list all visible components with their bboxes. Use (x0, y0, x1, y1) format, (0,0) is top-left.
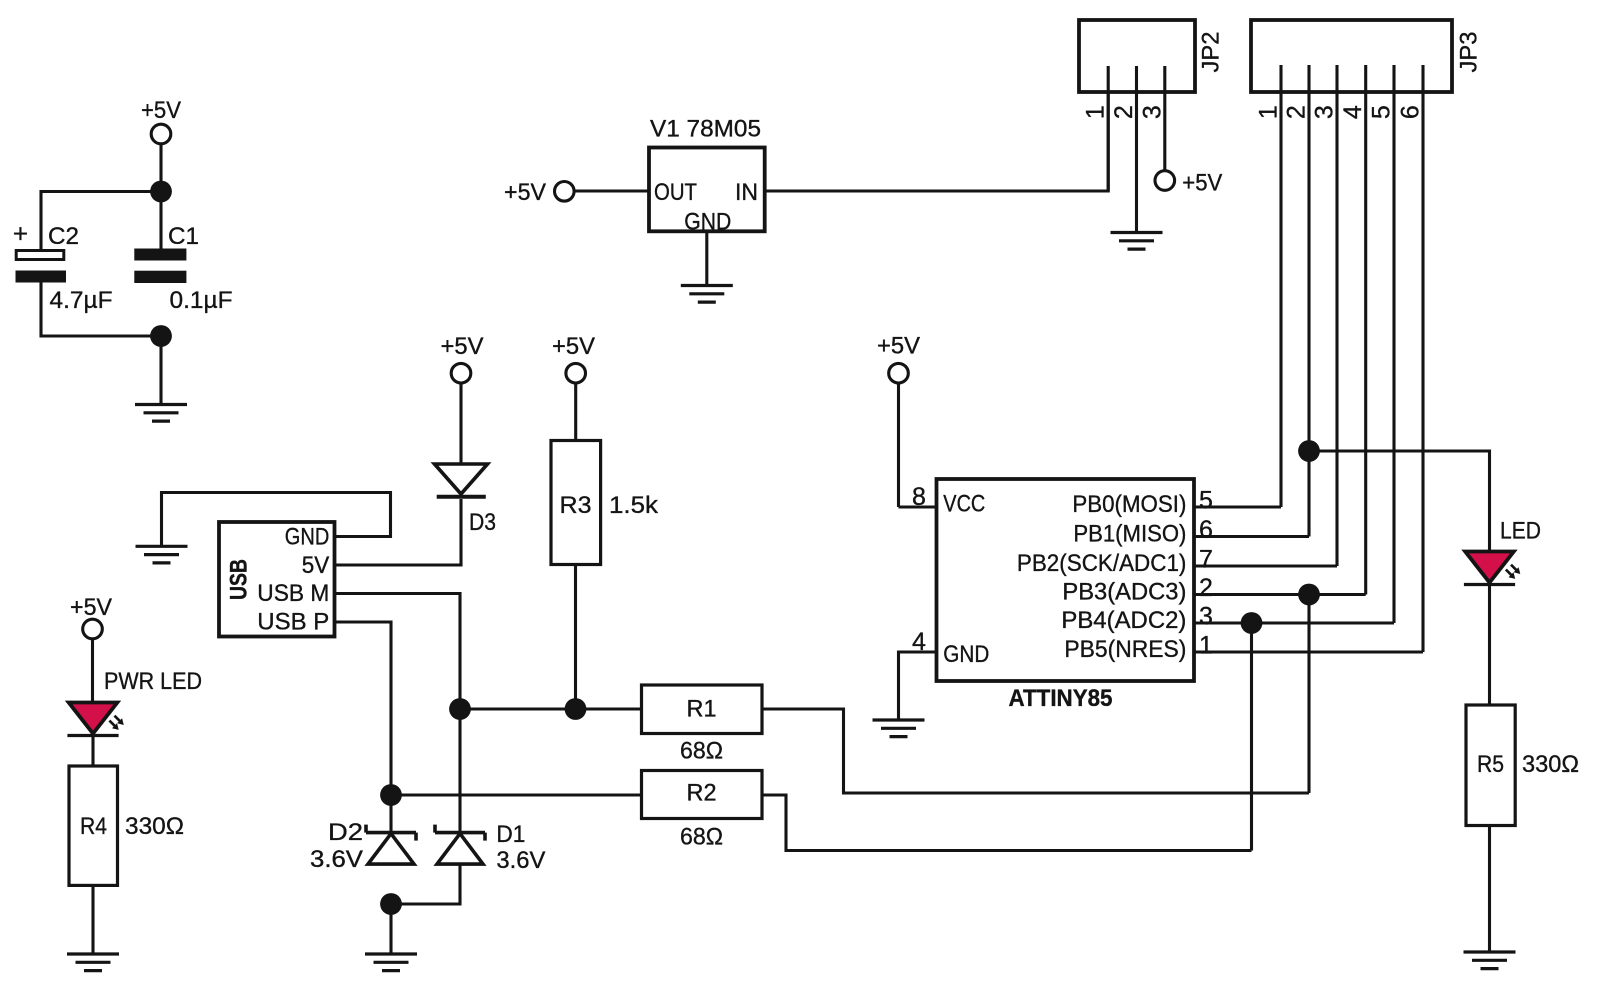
wire +5V rail to C1/C2 node (159, 144, 162, 192)
wire R2 to PB4 net (762, 795, 1252, 851)
svg-text:68Ω: 68Ω (680, 823, 723, 850)
junction USB M / R3 / R1 node (449, 698, 471, 720)
svg-text:JP3: JP3 (1456, 32, 1483, 73)
JP3 pin 2 (1307, 65, 1310, 537)
wire C2 bottom to node (41, 283, 161, 337)
wire R5 to ground (1488, 826, 1491, 952)
svg-text:R4: R4 (80, 813, 107, 840)
wire zener node to ground (389, 904, 392, 954)
wire regulator GND down (705, 231, 708, 285)
capacitor C1 plates (134, 249, 186, 284)
svg-text:PB1(MISO): PB1(MISO) (1073, 520, 1186, 547)
JP3 pin 1 (1279, 65, 1282, 507)
svg-text:+5V: +5V (70, 594, 113, 621)
junction PB3/R1 (1298, 584, 1320, 606)
wire VCC pin 8 (899, 505, 937, 508)
svg-text:2: 2 (1199, 574, 1213, 602)
svg-text:C1: C1 (168, 223, 199, 250)
wire +5V to VCC (897, 383, 900, 507)
svg-text:3: 3 (1199, 603, 1213, 631)
svg-text:3.6V: 3.6V (310, 846, 364, 873)
JP2 pin 3 (1163, 66, 1166, 171)
wire D1 anode to ground node (391, 864, 460, 904)
junction node bottom (C1/C2/gnd) (150, 325, 172, 347)
wire PB0 to JP3 pin 1 (1194, 505, 1281, 508)
svg-text:5: 5 (1368, 105, 1396, 119)
ground below C1/C2 (135, 405, 187, 422)
svg-text:4.7µF: 4.7µF (50, 287, 113, 314)
svg-text:+5V: +5V (1182, 170, 1223, 197)
JP2 pin 1 (1107, 66, 1110, 191)
wire LED to R5 (1488, 586, 1491, 705)
USB connector body (219, 522, 335, 637)
wire R1 to PB3 net (762, 709, 1309, 793)
wire regulator IN to JP2 pin 1 (765, 66, 1108, 191)
+5V supply terminal at JP2 pin 3 (1155, 170, 1223, 197)
+5V supply terminal above PWR LED (70, 594, 113, 639)
zener diode D1 (435, 825, 485, 865)
wire R1 riser (1307, 595, 1310, 794)
resistor R4 (69, 766, 118, 885)
svg-text:+5V: +5V (877, 333, 921, 360)
svg-text:6: 6 (1199, 516, 1213, 544)
JP3 pin 4 (1364, 65, 1367, 595)
capacitor C2 (polarized) plates (16, 251, 67, 283)
+5V supply terminal at regulator output (504, 179, 574, 206)
svg-text:PB2(SCK/ADC1): PB2(SCK/ADC1) (1017, 550, 1187, 577)
wire PB5 to JP3 pin 6 (1194, 650, 1423, 653)
wire D+ node to R2 (391, 793, 641, 796)
wire D- node to R1 (460, 707, 641, 710)
svg-text:PB3(ADC3): PB3(ADC3) (1062, 578, 1186, 605)
svg-text:1: 1 (1082, 105, 1110, 119)
svg-text:68Ω: 68Ω (680, 737, 723, 764)
junction D2/D1 ground node (380, 893, 402, 915)
wire LED branch (1309, 451, 1490, 552)
svg-text:3.6V: 3.6V (496, 847, 546, 874)
ground below regulator (681, 286, 733, 303)
resistor R5 (1466, 705, 1515, 826)
+5V supply terminal above D3 (441, 333, 485, 383)
svg-text:R1: R1 (687, 695, 717, 722)
svg-text:USB: USB (226, 559, 253, 600)
svg-text:6: 6 (1397, 105, 1425, 119)
connector JP3 body (1251, 20, 1483, 92)
svg-text:OUT: OUT (654, 179, 697, 206)
ground below R4 (67, 954, 119, 971)
wire USB GND to ground (162, 493, 391, 547)
svg-text:1.5k: 1.5k (609, 492, 659, 519)
svg-text:IN: IN (735, 179, 758, 206)
junction R3 bottom (565, 698, 587, 720)
diode D3 (435, 464, 488, 497)
wire to ground (159, 336, 162, 404)
ground below R5 (1464, 952, 1516, 969)
wire to C2 branch (41, 192, 161, 251)
junction node top (C1/C2/+5V) (150, 181, 172, 203)
svg-text:330Ω: 330Ω (125, 813, 184, 840)
resistor R3 (551, 441, 601, 565)
+5V supply terminal above R3 (552, 333, 596, 383)
wire C1 top (159, 192, 162, 249)
svg-text:4: 4 (1339, 105, 1367, 119)
svg-text:LED: LED (1500, 518, 1541, 545)
+5V supply terminal above C1/C2 (141, 97, 182, 144)
wire PB2 to JP3 pin 3 (1194, 564, 1337, 567)
svg-text:ATTINY85: ATTINY85 (1009, 685, 1113, 712)
svg-text:R3: R3 (560, 492, 592, 519)
JP3 pin 6 (1421, 65, 1424, 652)
svg-text:C2: C2 (48, 223, 79, 250)
svg-text:D2: D2 (328, 819, 363, 846)
wire PB3 to JP3 pin 4 (1194, 593, 1366, 596)
svg-text:GND: GND (943, 641, 989, 668)
LED PWR (power indicator) (67, 703, 123, 736)
svg-text:7: 7 (1199, 546, 1213, 574)
svg-text:1: 1 (1255, 105, 1283, 119)
junction LED tap on JP3 pin 2 line (1298, 440, 1320, 462)
svg-text:USB P: USB P (257, 608, 329, 635)
JP2 pin 2 (1135, 66, 1138, 232)
svg-text:+5V: +5V (504, 179, 547, 206)
LED indicator on PB1 net (1464, 552, 1520, 585)
svg-text:USB M: USB M (257, 580, 329, 607)
svg-text:PB0(MOSI): PB0(MOSI) (1072, 491, 1186, 518)
wire USB M down to D1 (335, 594, 461, 833)
wire PB1 to JP3 pin 2 (1194, 535, 1309, 538)
wire GND pin 4 (899, 652, 937, 720)
svg-text:+5V: +5V (141, 97, 182, 124)
JP3 pin 5 (1392, 65, 1395, 623)
wire R3 to D- node (574, 565, 577, 710)
svg-text:JP2: JP2 (1198, 32, 1225, 73)
svg-text:D1: D1 (496, 821, 525, 848)
ground below ATTINY85 GND (873, 720, 925, 737)
voltage regulator V1 78M05 (649, 116, 765, 236)
wire USB 5V to D3 cathode (335, 499, 462, 565)
svg-text:5V: 5V (302, 552, 330, 579)
JP3 pin 3 (1335, 65, 1338, 566)
IC U1 ATTINY85 body (937, 479, 1195, 712)
junction PB4/R2 (1241, 612, 1263, 634)
svg-text:D3: D3 (469, 509, 496, 536)
svg-text:+5V: +5V (441, 333, 485, 360)
svg-text:1: 1 (1199, 632, 1213, 660)
svg-text:5: 5 (1199, 487, 1213, 515)
svg-text:2: 2 (1110, 105, 1138, 119)
svg-text:3: 3 (1311, 105, 1339, 119)
wire +5V to D3 anode (459, 383, 462, 464)
svg-text:PB5(NRES): PB5(NRES) (1064, 636, 1186, 663)
wire PB4 to JP3 pin 5 (1194, 621, 1394, 624)
wire R2 riser (1250, 623, 1253, 851)
svg-text:R5: R5 (1477, 751, 1504, 778)
wire +5V terminal to regulator OUT (574, 189, 649, 192)
svg-text:+5V: +5V (552, 333, 596, 360)
zener diode D2 (366, 825, 416, 865)
svg-text:VCC: VCC (943, 491, 985, 518)
ground below D2/D1 (365, 954, 417, 971)
ground below JP2 pin 2 (1111, 233, 1163, 250)
svg-text:R2: R2 (687, 780, 717, 807)
connector JP2 body (1079, 20, 1225, 92)
svg-text:+: + (13, 219, 28, 249)
junction USB P / R2 node (380, 784, 402, 806)
svg-text:GND: GND (285, 524, 330, 551)
wire R4 to ground (91, 885, 94, 953)
resistor R2 (642, 771, 763, 819)
wire USB P down to D2 (335, 622, 392, 833)
+5V supply terminal above ATTINY85 VCC (877, 333, 921, 384)
svg-text:0.1µF: 0.1µF (170, 287, 233, 314)
svg-text:PWR LED: PWR LED (104, 668, 202, 695)
svg-text:V1 78M05: V1 78M05 (650, 116, 761, 143)
wire PWR LED to R4 (91, 737, 94, 766)
svg-text:2: 2 (1283, 105, 1311, 119)
wire +5V to R3 (574, 383, 577, 441)
svg-text:3: 3 (1138, 105, 1166, 119)
ground below USB GND (136, 546, 188, 563)
svg-text:330Ω: 330Ω (1522, 751, 1579, 778)
svg-text:PB4(ADC2): PB4(ADC2) (1061, 607, 1186, 634)
wire +5V to PWR LED (91, 639, 94, 703)
resistor R1 (642, 685, 763, 734)
